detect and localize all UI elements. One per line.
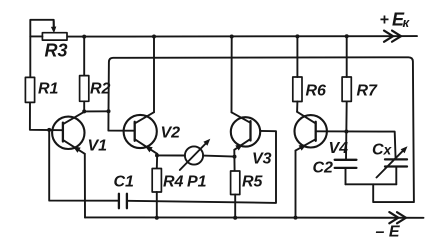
node junction V2 collector at rail (152, 35, 156, 39)
transistor V3 (231, 112, 260, 150)
node R7 label (357, 83, 379, 100)
svg-text:R3: R3 (45, 41, 68, 61)
svg-text:R2: R2 (90, 81, 111, 98)
svg-text:R7: R7 (357, 83, 379, 100)
node R3 label (45, 41, 68, 61)
wire R3 wiper loop (30, 20, 53, 78)
capacitor C1 (119, 194, 127, 208)
wire R1 bottom to V1 base (30, 102, 63, 130)
wire R7 bottom lead to C2 (345, 101, 348, 159)
transistor V2 (124, 112, 158, 154)
wire Cx bottom lead (395, 167, 397, 185)
svg-text:R1: R1 (38, 81, 59, 98)
wire R5 bottom lead (234, 195, 236, 219)
node V1 label (88, 138, 108, 155)
transistor V4 (295, 112, 327, 151)
node junction R4 at bottom rail (155, 216, 159, 220)
node junction R6 at rail (295, 34, 299, 38)
node junction P1 right at V3 emitter (233, 155, 237, 159)
svg-text:V2: V2 (161, 125, 181, 142)
svg-text:V1: V1 (88, 138, 108, 155)
wire P1 left lead (157, 154, 185, 156)
wire V3 collector to rail (231, 37, 233, 113)
wire C2 bottom lead (345, 168, 347, 184)
node +Ek label (380, 10, 411, 31)
svg-text:C2: C2 (313, 160, 334, 177)
node R5 label (242, 174, 264, 191)
potentiometer P1 (180, 139, 211, 170)
node R1 label (38, 81, 59, 98)
node junction V3 collector at rail (230, 35, 234, 39)
resistor R1 (25, 77, 34, 102)
wire V3 emitter to R5 (233, 150, 235, 171)
node junction R7 at rail (345, 34, 349, 38)
svg-text:– E: – E (376, 224, 401, 241)
wire V4 emitter to bottom rail (295, 151, 297, 218)
svg-text:V3: V3 (252, 151, 272, 168)
transistor V1 (52, 112, 85, 154)
svg-text:C: C (372, 142, 384, 159)
svg-text:P1: P1 (187, 174, 207, 191)
svg-text:R5: R5 (242, 174, 264, 191)
node Cx label (372, 142, 393, 159)
wire -E bottom rail (85, 216, 424, 218)
svg-text:V4: V4 (329, 140, 349, 157)
wire R2 top lead (83, 37, 85, 76)
node +Ek rail arrow (384, 31, 401, 42)
wire R6 top lead (296, 36, 298, 77)
svg-text:R4: R4 (163, 174, 184, 191)
resistor R4 (152, 169, 161, 193)
resistor R5 (231, 171, 240, 195)
node V3 label (252, 151, 272, 168)
wire C1 to V3 base (128, 131, 276, 203)
node junction V4 base / R7 / C2 (344, 130, 348, 134)
node R3 wiper arrow (51, 21, 56, 33)
node junction R5 at bottom rail (233, 216, 237, 220)
capacitor C2 (335, 160, 357, 168)
node junction bus drop (107, 109, 111, 113)
node C1 label (114, 174, 135, 191)
wire feedback bus (V1 collector node to tank bottom) (109, 57, 414, 202)
node R6 label (306, 83, 327, 100)
resistor R3 (rheostat) (42, 33, 67, 40)
node V4 label (329, 140, 349, 157)
node junction V1 collector (82, 109, 86, 113)
node -E rail arrow (389, 212, 406, 223)
resistor R6 (293, 77, 302, 102)
wire R6 bottom lead to V4 collector (296, 102, 298, 112)
wire V1 emitter to bottom rail (84, 154, 86, 218)
svg-text:x: x (383, 142, 393, 158)
node junction P1 left at V2 emitter (155, 153, 159, 157)
wire V1 base to C1 (49, 130, 118, 201)
wire V4 base to Cx top (316, 131, 396, 159)
node -E label (376, 224, 401, 241)
wire V1 collector node to bus drop (84, 110, 108, 112)
node R2 label (90, 81, 111, 98)
wire R2 bottom lead (83, 101, 85, 111)
node C2 label (313, 160, 334, 177)
resistor R7 (342, 77, 351, 101)
wire V2 emitter to R4 (156, 154, 158, 169)
node V2 label (161, 125, 181, 142)
node junction V4 emitter at bottom rail (294, 216, 298, 220)
wire P1 right lead (203, 156, 234, 157)
resistor R2 (80, 76, 89, 102)
svg-text:C1: C1 (114, 174, 135, 191)
capacitor Cx (variable) (377, 146, 408, 177)
node R4 label (163, 174, 184, 191)
svg-text:+: + (380, 12, 389, 29)
wire R7 top lead (346, 36, 348, 77)
wire V2 collector to rail (153, 37, 155, 113)
node junction V1 base / C1 drop (47, 128, 51, 132)
wire bus drop to V2 base (108, 111, 134, 130)
svg-text:R6: R6 (306, 83, 327, 100)
wire +Ek top rail (67, 35, 417, 38)
node junction R2 at rail (82, 35, 86, 39)
wire tank bottom (C2 to Cx) (346, 183, 397, 185)
wire R4 bottom lead (156, 192, 158, 218)
node P1 label (187, 174, 207, 191)
